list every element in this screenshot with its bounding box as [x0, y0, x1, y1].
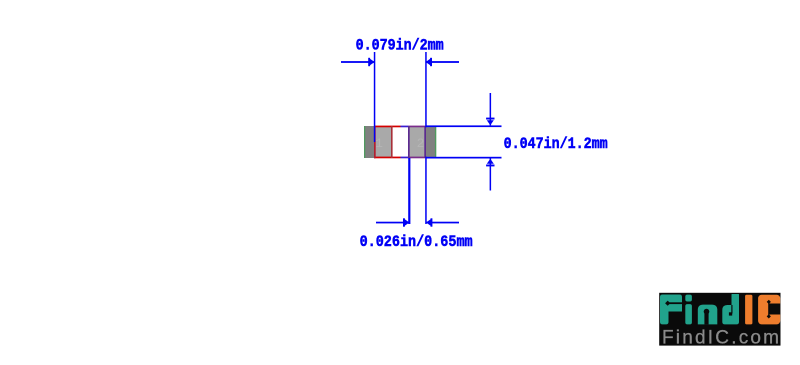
- svg-text:0.026in/0.65mm: 0.026in/0.65mm: [360, 233, 473, 251]
- svg-text:0.047in/1.2mm: 0.047in/1.2mm: [504, 135, 608, 153]
- svg-text:0.079in/2mm: 0.079in/2mm: [356, 36, 444, 54]
- svg-text:1: 1: [375, 136, 383, 151]
- svg-text:2: 2: [417, 136, 425, 151]
